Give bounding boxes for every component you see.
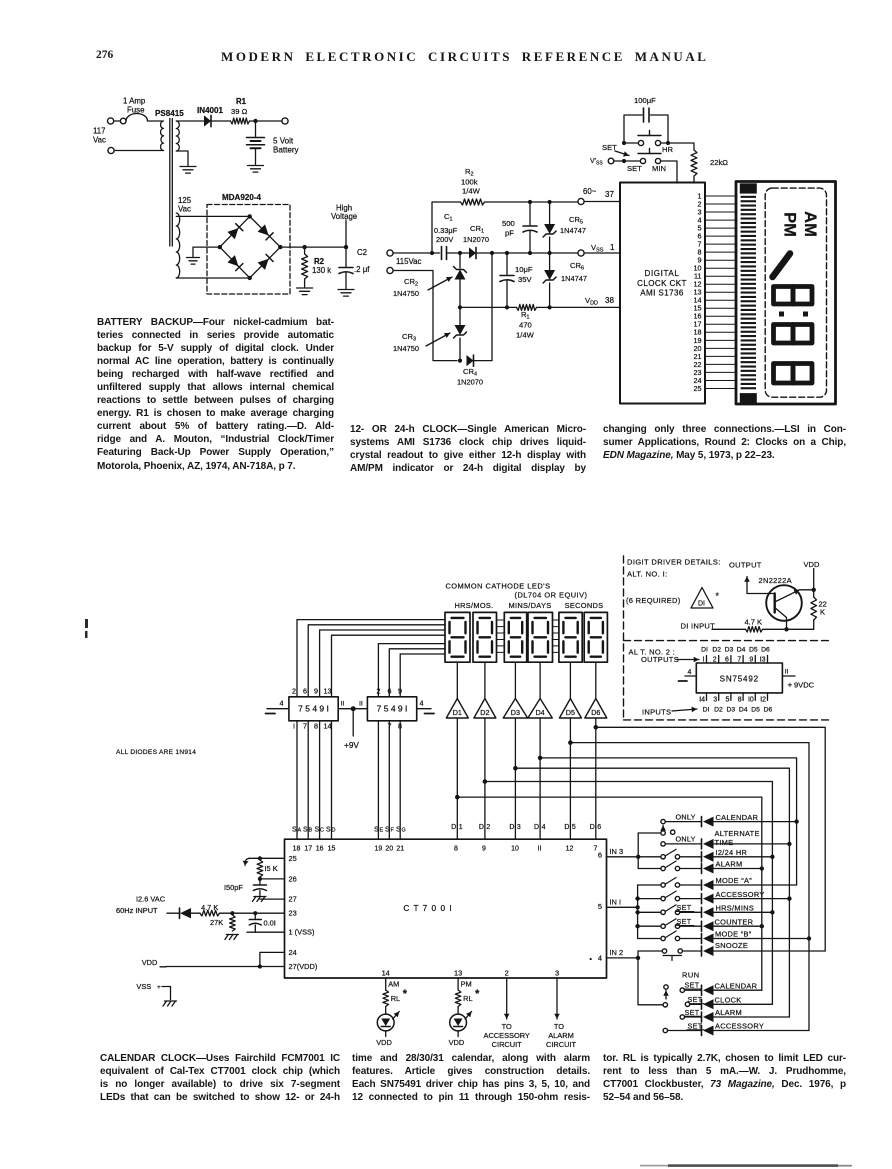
svg-text:D: D	[564, 824, 569, 831]
svg-text:S: S	[292, 827, 297, 834]
svg-text:D5: D5	[751, 707, 760, 714]
label: HRS/MOS	[454, 601, 493, 610]
svg-text:130 k: 130 k	[312, 266, 331, 275]
label: 22 K	[819, 600, 827, 617]
svg-text:2N2222A: 2N2222A	[759, 576, 792, 585]
node: ALARM to D1 bus	[760, 866, 764, 870]
label: MIN	[652, 164, 666, 173]
label: SET CLOCK row	[715, 996, 742, 1005]
svg-text:9: 9	[482, 846, 486, 853]
svg-text:1N4750: 1N4750	[393, 289, 419, 298]
label: 75491-1 top pins 2 6 9 13	[292, 687, 332, 696]
svg-text:8: 8	[454, 846, 458, 853]
label: R2 100k 1/4W	[461, 167, 481, 196]
svg-text:1N2070: 1N2070	[457, 378, 483, 387]
svg-text:35V: 35V	[518, 275, 532, 284]
svg-text:SET: SET	[677, 917, 692, 926]
terminal: 60~ pin 37	[578, 198, 584, 204]
wire: input to C1	[393, 252, 439, 254]
node: D3 bus tap	[513, 766, 518, 771]
wire: D1 output down to CT7001 pin	[456, 718, 458, 839]
svg-text:R2: R2	[465, 167, 474, 178]
LED display digit 6	[584, 612, 607, 662]
svg-text:TO: TO	[502, 1022, 512, 1031]
ground: 27K hatched	[225, 935, 239, 940]
battery BT1 5 Volt	[247, 138, 265, 149]
svg-text:10μF: 10μF	[515, 265, 533, 274]
wire: pin 2 to accessory circuit	[504, 978, 510, 1019]
label: CT7001 top pin numbers	[293, 846, 598, 853]
svg-text:CR1: CR1	[470, 224, 484, 235]
terminal: 117 Vac bottom	[108, 147, 114, 153]
svg-text:DI: DI	[698, 601, 705, 608]
svg-text:1: 1	[459, 824, 463, 831]
label: CT7001 left pin numbers	[289, 854, 318, 971]
terminal: 5V output	[282, 118, 288, 124]
wire: R1 to output terminal	[250, 120, 283, 122]
svg-text:ACCESSORY: ACCESSORY	[715, 1022, 764, 1031]
svg-text:3: 3	[517, 824, 521, 831]
diode: SET CLOCK	[702, 999, 714, 1009]
terminal: 115Vac line bottom	[387, 267, 393, 273]
svg-text:Battery: Battery	[273, 146, 300, 155]
LED PM	[450, 1007, 472, 1037]
svg-text:PM: PM	[781, 212, 799, 237]
label: 150pF	[224, 883, 243, 892]
svg-text:4: 4	[420, 699, 424, 708]
svg-text:I50pF: I50pF	[224, 883, 243, 892]
svg-text:CALENDAR: CALENDAR	[716, 813, 759, 822]
svg-text:(6 REQUIRED): (6 REQUIRED)	[626, 596, 681, 605]
node: IN2 junction	[636, 956, 640, 960]
bottom scan artifact line	[640, 1164, 852, 1167]
label: DIGITAL CLOCK CKT AMI S1736	[637, 269, 687, 298]
svg-text:C1: C1	[444, 212, 453, 223]
label: SA SB SC SD	[292, 827, 336, 834]
svg-text:I5 K: I5 K	[265, 864, 278, 873]
node: MODE B to D5 bus	[807, 936, 811, 940]
pins 1-25 to LCD	[694, 191, 738, 393]
svg-text:CIRCUIT: CIRCUIT	[492, 1040, 523, 1049]
wire: digit 4 cathode to driver D4	[539, 662, 541, 698]
svg-text:CLOCK CKT: CLOCK CKT	[637, 279, 687, 288]
label: SE SF SG	[374, 827, 406, 834]
svg-text:4.7 K: 4.7 K	[745, 618, 763, 627]
node: 15K top	[258, 856, 262, 860]
svg-text:D4: D4	[739, 707, 748, 714]
diode: MODE B	[702, 934, 714, 944]
ground: battery	[248, 166, 264, 173]
label: PM	[461, 980, 472, 989]
LCD digit 8 third	[774, 364, 813, 384]
node: 10uF top	[505, 251, 509, 255]
svg-text:27(VDD): 27(VDD)	[289, 962, 318, 971]
svg-text:D1: D1	[453, 708, 462, 717]
wire: IN1 from CT7001	[607, 898, 638, 908]
svg-text:R1: R1	[236, 97, 247, 106]
label: 2N2222A	[759, 576, 792, 585]
svg-text:II: II	[359, 701, 363, 708]
svg-text:ACCESSORY: ACCESSORY	[716, 890, 765, 899]
wire: pin 1 VSS lead	[247, 931, 285, 933]
label: C2 .2uF	[354, 248, 370, 274]
label: 10uF 35V	[515, 265, 533, 284]
node: D4 bus tap	[538, 756, 543, 761]
ground: center tap	[187, 258, 200, 265]
node: main rail at x492	[490, 251, 494, 255]
svg-text:1 (VSS): 1 (VSS)	[289, 928, 315, 937]
wire: diode to R1	[211, 120, 231, 122]
svg-text:25: 25	[694, 384, 702, 393]
wire: VDD to pins 24 and 27	[166, 952, 285, 966]
svg-text:ONLY: ONLY	[676, 812, 696, 821]
svg-text:500: 500	[502, 219, 515, 228]
switch: ALTERNATE TIME only	[661, 842, 665, 846]
node: 500pF bottom	[528, 251, 532, 255]
svg-text:TO: TO	[554, 1022, 564, 1031]
LCD PM indicator	[781, 212, 799, 237]
svg-text:HR: HR	[662, 145, 674, 154]
switch: SET HRS/MINS	[638, 905, 680, 915]
text: 12- OR 24-h CLOCK caption column 1	[350, 423, 586, 475]
node: CR2/CR3 junction on Vdd rail	[458, 305, 462, 309]
svg-text:25: 25	[289, 854, 297, 863]
wire: D4 bus to switch matrix	[540, 758, 797, 885]
wire: IN2 down to RUN/SET selector	[638, 958, 663, 1005]
diode: COUNTER	[702, 921, 714, 931]
label: OUTPUTS with arrow	[641, 655, 699, 664]
svg-text:MINS/DAYS: MINS/DAYS	[509, 601, 552, 610]
diode: SET CALENDAR	[702, 985, 714, 995]
node: bridge bottom vertex	[248, 276, 252, 280]
svg-text:*: *	[475, 988, 480, 1000]
label: MINS/DAYS	[509, 601, 552, 610]
node: D5 bus tap	[568, 740, 573, 745]
node: R2 branch on input wire	[430, 251, 434, 255]
label: CR5 1N4747	[560, 215, 586, 235]
ground: VSS hatched	[163, 1001, 177, 1006]
svg-text:VDD: VDD	[804, 560, 820, 569]
resistor R1 39 ohm	[231, 118, 250, 124]
svg-text:ALARM: ALARM	[716, 860, 743, 869]
svg-text:117: 117	[93, 127, 106, 136]
label: D1-D6 inputs footer	[703, 707, 773, 714]
wire: row ACCESSORY	[680, 898, 790, 900]
terminal: V'ss	[608, 158, 614, 164]
svg-text:0.0I: 0.0I	[264, 919, 276, 928]
wire: row MODE B	[680, 938, 809, 940]
wire: segment buses from 75491-1 to displays	[297, 620, 445, 697]
svg-text:CIRCUIT: CIRCUIT	[546, 1040, 577, 1049]
svg-text:27K: 27K	[210, 918, 223, 927]
svg-text:8: 8	[314, 722, 318, 731]
label: 4.7K (alt1)	[745, 618, 763, 627]
svg-text:D3: D3	[511, 708, 520, 717]
switch: RUN/SET selector	[663, 985, 669, 1007]
wire: 60Hz input lead	[167, 912, 179, 914]
label: V'ss	[590, 158, 603, 167]
svg-text:F: F	[391, 828, 395, 834]
transformer T1 5V secondary winding	[176, 121, 179, 151]
wire: node down to battery	[255, 121, 257, 137]
wire: row SET CALENDAR	[685, 989, 762, 991]
svg-text:E: E	[380, 828, 384, 834]
resistor R1 470 1/4W	[517, 304, 537, 310]
label: SET lower	[627, 164, 642, 173]
wire: SN75492 pin 11 lead	[782, 669, 795, 677]
LCD digit 1	[773, 254, 791, 278]
svg-text:IN 3: IN 3	[610, 847, 624, 856]
diode: SET ACCESSORY	[702, 1026, 714, 1036]
node: 500pF top	[528, 200, 532, 204]
wire: D3 output down to CT7001 pin	[514, 718, 516, 839]
IC CT7001	[285, 839, 607, 978]
label: SET upper with arrow	[602, 143, 629, 157]
svg-text:VDD: VDD	[585, 296, 598, 307]
wire: row SET CLOCK	[690, 1003, 773, 1005]
svg-text:SET: SET	[627, 164, 642, 173]
svg-text:14: 14	[382, 969, 390, 978]
wire: C1 to CR1	[447, 252, 470, 254]
wire: battery to ground	[255, 148, 257, 164]
node: bridge right vertex	[278, 245, 282, 249]
label: CALENDAR row	[716, 813, 759, 822]
svg-text:HRS/MOS.: HRS/MOS.	[454, 601, 493, 610]
svg-text:VSS: VSS	[136, 982, 151, 991]
label: SECONDS	[565, 601, 604, 610]
label: SET (hrs/mins)	[676, 903, 694, 912]
pins: SN75492 top	[703, 656, 768, 664]
svg-text:9VDC: 9VDC	[794, 681, 815, 690]
wire: digit 2 cathode to driver D2	[484, 662, 486, 698]
label: 125 Vac	[178, 196, 192, 214]
svg-text:I0: I0	[748, 697, 754, 704]
switch SET/HR pushbutton	[622, 131, 670, 146]
svg-text:SN75492: SN75492	[720, 675, 759, 684]
wire: R2 to 60~ terminal rail	[485, 201, 579, 203]
svg-text:S: S	[374, 827, 379, 834]
svg-text:ACCESSORY: ACCESSORY	[484, 1031, 530, 1040]
wire: 75491-2 pin 4 lead	[417, 699, 434, 714]
node: R1 right junction	[548, 305, 552, 309]
label: VDD under LED AM	[376, 1038, 392, 1047]
transistor Q 2N2222A	[766, 585, 802, 621]
dashed border: digit driver details	[624, 556, 831, 720]
wire: secondary bottom tap	[176, 151, 188, 166]
wire: lower input rail down	[393, 271, 457, 361]
svg-text:DI INPUT: DI INPUT	[681, 622, 716, 631]
diode: ACCESSORY	[702, 894, 714, 904]
switch: ACCESSORY	[638, 891, 680, 901]
svg-text:OUTPUTS: OUTPUTS	[641, 655, 679, 664]
text: CALENDAR CLOCK caption column 3	[603, 1052, 846, 1104]
svg-text:+: +	[788, 681, 793, 690]
ground: secondary	[180, 167, 196, 174]
resistor RL PM	[455, 990, 461, 1007]
wire: Vdd rail	[460, 306, 620, 308]
ground: R2	[297, 288, 313, 295]
svg-text:S: S	[315, 827, 320, 834]
node: CR5/CR6 mid	[548, 251, 552, 255]
svg-text:IN I: IN I	[610, 898, 622, 907]
label: 100uF	[634, 96, 656, 105]
svg-text:DIGIT DRIVER DETAILS:: DIGIT DRIVER DETAILS:	[627, 558, 721, 567]
svg-text:10: 10	[511, 846, 519, 853]
switch: 12/24 HR	[638, 849, 680, 859]
label: (6 REQUIRED)	[626, 596, 681, 605]
label: SET (accessory)	[687, 1021, 704, 1030]
switch: MODE B	[638, 931, 680, 941]
label: INPUTS with arrow	[642, 707, 697, 717]
diode: ALTERNATE TIME	[702, 839, 714, 849]
resistor 4.7K (alt1)	[746, 627, 763, 633]
label: 75491-2 top pins 2 6 9	[377, 687, 403, 696]
label: TO ALARM CIRCUIT	[546, 1022, 577, 1049]
label: ALARM	[716, 860, 743, 869]
label: HR	[662, 145, 674, 154]
label: 500 pF	[502, 219, 515, 238]
svg-text:D3: D3	[725, 647, 734, 654]
svg-text:SET: SET	[677, 903, 692, 912]
svg-text:S: S	[303, 827, 308, 834]
bridge diode lower-left	[227, 255, 242, 271]
svg-text:ONLY: ONLY	[676, 835, 696, 844]
wire: diode to 4.7K	[191, 912, 200, 914]
node: 10uF bottom	[505, 305, 509, 309]
capacitor 10uF 35V	[500, 253, 514, 307]
node: C2 junction	[344, 245, 348, 249]
terminal: Vss pin 1	[578, 250, 584, 256]
svg-text:II: II	[341, 701, 345, 708]
wire: Vss into chip	[584, 252, 620, 254]
svg-text:20: 20	[385, 846, 393, 853]
wire: output arrow from collector	[744, 577, 775, 594]
diode: 12/24 HR	[702, 852, 714, 862]
svg-text:D2: D2	[480, 708, 489, 717]
svg-text:1N4747: 1N4747	[560, 226, 586, 235]
node: ALT TIME to D3 bus	[787, 842, 791, 846]
resistor 22K	[811, 597, 817, 629]
svg-text:1: 1	[610, 243, 615, 252]
wire: row MODE A	[680, 884, 797, 886]
LED display digit 2	[473, 612, 497, 662]
diode: HRS/MINS	[702, 907, 714, 917]
zener CR6 1N4747	[543, 253, 556, 307]
label: TO ACCESSORY CIRCUIT	[484, 1022, 530, 1049]
node: D1 bus tap	[455, 795, 460, 800]
svg-text:VDD: VDD	[376, 1038, 392, 1047]
label: CR6 1N4747	[561, 261, 587, 283]
wire: 75491-1 pin 4 lead	[266, 699, 289, 714]
diode: SET ALARM	[702, 1012, 714, 1022]
resistor 22k	[691, 150, 697, 183]
label: +9VDC	[788, 681, 815, 690]
wire: pin lead AM	[385, 978, 387, 990]
svg-text:2: 2	[486, 824, 490, 831]
wire: 125Vac top to bridge top vertex	[176, 215, 249, 217]
label: CR4 1N2070	[457, 367, 483, 387]
svg-text:SET: SET	[685, 981, 700, 990]
svg-text:26: 26	[289, 874, 297, 883]
LED display digit 1	[445, 612, 470, 662]
svg-text:CR5: CR5	[569, 215, 583, 226]
svg-text:CR2: CR2	[404, 277, 418, 288]
svg-text:CR6: CR6	[570, 261, 584, 272]
svg-text:RL: RL	[463, 994, 472, 1003]
label: SET (alarm)	[684, 1008, 701, 1017]
svg-text:8: 8	[738, 697, 742, 704]
svg-text:D: D	[534, 824, 539, 831]
switch contact: SET ALARM	[680, 1015, 684, 1019]
capacitor C1 0.33uF 200V	[442, 247, 447, 260]
switch contact: SET CALENDAR	[680, 988, 684, 992]
wire: row SET ALARM	[685, 1016, 790, 1018]
svg-text:D: D	[479, 824, 484, 831]
IC 75491 first driver	[289, 697, 338, 721]
svg-text:CLOCK: CLOCK	[715, 996, 742, 1005]
svg-text:7 5 4 9 I: 7 5 4 9 I	[377, 704, 408, 714]
LCD zebra connector strip	[740, 183, 757, 403]
label: 117 Vac	[93, 127, 106, 145]
svg-text:VDD: VDD	[142, 958, 158, 967]
node: CR2 string top	[458, 251, 462, 255]
svg-text:I2: I2	[760, 697, 766, 704]
svg-text:ALT. NO. I:: ALT. NO. I:	[627, 570, 668, 579]
svg-text:115Vac: 115Vac	[396, 257, 422, 266]
svg-text:COUNTER: COUNTER	[715, 917, 754, 926]
diode CR4 1N2070	[467, 355, 474, 366]
page number 276	[96, 49, 113, 61]
svg-text:0.33μF: 0.33μF	[434, 226, 458, 235]
svg-text:.2 μf: .2 μf	[354, 265, 370, 274]
svg-text:INPUTS: INPUTS	[642, 708, 671, 717]
wire: segment buses from 75491-2 to displays	[378, 644, 445, 697]
label: AM	[388, 980, 399, 989]
wire: D4 output down to CT7001 pin	[539, 718, 541, 839]
node: R2 junction	[302, 245, 306, 249]
label: RL PM	[463, 988, 480, 1003]
resistor 15K trimmer	[257, 860, 263, 877]
label: D1-D6 above pins	[451, 824, 601, 831]
zener CR3 1N4750	[454, 307, 467, 360]
svg-text:D6: D6	[764, 707, 773, 714]
wire: D6 bus to switch matrix	[596, 727, 825, 951]
svg-text:MIN: MIN	[652, 164, 666, 173]
pins: SN75492 bottom	[699, 693, 767, 704]
diode CR1 1N2070	[469, 247, 476, 258]
svg-text:SET: SET	[685, 1008, 700, 1017]
svg-text:24: 24	[289, 948, 297, 957]
svg-text:C2: C2	[357, 248, 367, 257]
diode: CALENDAR	[702, 817, 714, 827]
svg-text:MDA920-4: MDA920-4	[222, 193, 261, 202]
LCD digit 8 second	[774, 325, 813, 344]
wire: segment jumpers between digit 4 and 5	[553, 620, 559, 652]
wire: D2 output down to CT7001 pin	[484, 718, 486, 839]
svg-text:+: +	[157, 984, 161, 991]
label: SET ACCESSORY row	[715, 1022, 764, 1031]
wire: pin lead PM	[457, 978, 459, 990]
svg-text:38: 38	[605, 296, 614, 305]
svg-text:17: 17	[304, 846, 312, 853]
wire: VSS stub to ground	[162, 987, 171, 1000]
LCD display module	[736, 182, 836, 405]
svg-text:4: 4	[542, 824, 546, 831]
wire: 125Vac bottom to bridge bottom vertex	[176, 277, 249, 279]
svg-text:MODE “B”: MODE “B”	[715, 930, 752, 939]
zener CR5 1N4747	[543, 202, 556, 253]
label: 22k ohm	[710, 158, 728, 167]
